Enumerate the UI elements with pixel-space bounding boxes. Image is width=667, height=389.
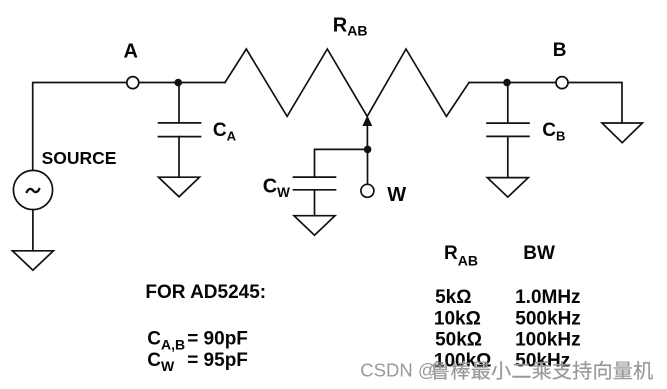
svg-text:RAB: RAB bbox=[333, 15, 368, 39]
svg-text:100kHz: 100kHz bbox=[515, 330, 581, 351]
svg-text:CA,B: CA,B bbox=[147, 329, 185, 353]
svg-text:10kΩ: 10kΩ bbox=[434, 308, 481, 329]
svg-text:A: A bbox=[124, 41, 138, 63]
svg-text:W: W bbox=[387, 184, 406, 206]
svg-text:1.0MHz: 1.0MHz bbox=[515, 287, 580, 308]
svg-text:B: B bbox=[553, 40, 567, 61]
svg-text:CW: CW bbox=[147, 350, 175, 374]
svg-text:RAB: RAB bbox=[444, 243, 478, 268]
svg-text:BW: BW bbox=[523, 243, 555, 264]
svg-text:CA: CA bbox=[213, 120, 237, 144]
svg-text:CW: CW bbox=[263, 176, 290, 201]
svg-text:SOURCE: SOURCE bbox=[42, 148, 117, 168]
svg-text:500kHz: 500kHz bbox=[515, 308, 581, 329]
svg-text:CB: CB bbox=[542, 120, 565, 144]
svg-text:= 90pF: = 90pF bbox=[187, 329, 248, 350]
svg-text:5kΩ: 5kΩ bbox=[435, 287, 471, 308]
svg-text:= 95pF: = 95pF bbox=[187, 350, 248, 371]
svg-text:CSDN @: CSDN @ bbox=[360, 359, 436, 380]
svg-text:50kΩ: 50kΩ bbox=[435, 330, 482, 351]
svg-text:FOR AD5245:: FOR AD5245: bbox=[145, 282, 266, 303]
